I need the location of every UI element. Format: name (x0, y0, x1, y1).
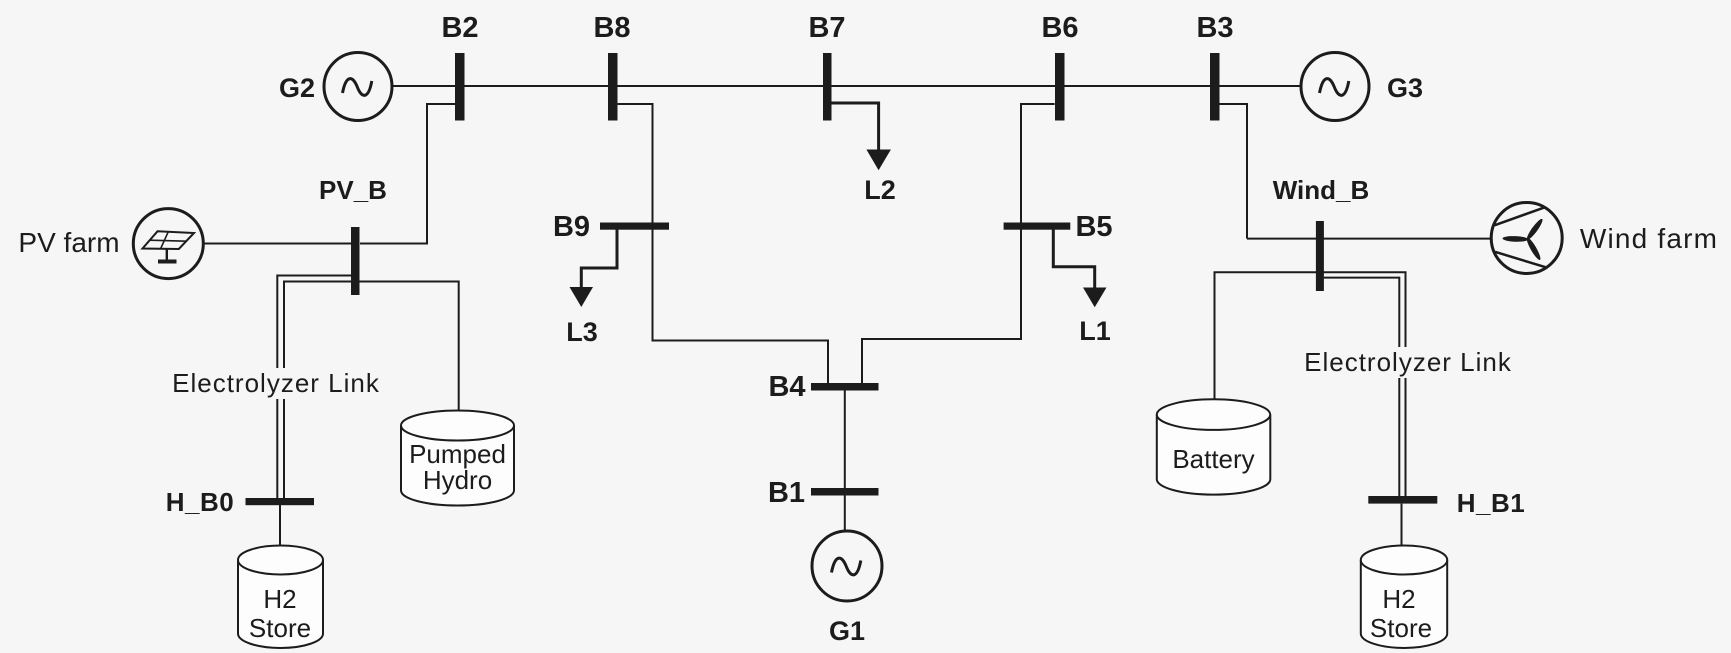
bus H_B0 (246, 498, 315, 505)
svg-text:B5: B5 (1075, 211, 1112, 243)
bus B1 (811, 488, 879, 496)
svg-text:L3: L3 (566, 317, 598, 347)
PV farm generator (133, 209, 203, 279)
wire: B3 to Wind_B (1219, 104, 1247, 239)
svg-text:H_B1: H_B1 (1457, 488, 1525, 518)
svg-text:B8: B8 (593, 12, 630, 44)
Electrolyzer Link label (left) (172, 368, 380, 399)
svg-text:B7: B7 (808, 12, 845, 44)
wire: H_B0 to H2 Store (279, 505, 281, 545)
wire: B8 down to B4 (618, 104, 828, 383)
svg-text:Electrolyzer Link: Electrolyzer Link (172, 368, 380, 398)
svg-text:H2: H2 (263, 584, 296, 614)
bus B2 (455, 53, 465, 121)
generator G1 (812, 531, 882, 601)
svg-text:B1: B1 (768, 477, 805, 509)
bus H_B1 (1368, 496, 1437, 504)
svg-text:L2: L2 (864, 175, 896, 205)
svg-text:PV farm: PV farm (18, 227, 119, 258)
wire: B4 to B1 (844, 390, 846, 488)
svg-text:Hydro: Hydro (423, 465, 492, 495)
load L2 arrow from B7 (831, 103, 879, 152)
H2 Store cylinder (right) (1361, 546, 1447, 648)
wire: main top bus line G2 to G3 (393, 85, 1301, 87)
svg-text:G3: G3 (1387, 73, 1423, 103)
svg-text:H2: H2 (1382, 584, 1415, 614)
bus B3 (1210, 53, 1220, 121)
wire: Wind_B to Wind farm (1247, 238, 1492, 240)
svg-text:Store: Store (1370, 613, 1432, 643)
Electrolyzer Link label (right) (1307, 347, 1513, 378)
wire: Wind_B to Battery and H_B1 (outer) (1215, 272, 1406, 496)
wire: PV farm to PV_B (204, 243, 352, 245)
svg-text:Wind_B: Wind_B (1273, 175, 1370, 205)
H2 Store cylinder (left) (238, 546, 323, 649)
svg-text:B4: B4 (768, 371, 805, 403)
wire: H_B1 to H2 Store (1401, 504, 1403, 546)
svg-text:PV_B: PV_B (319, 175, 387, 205)
bus Wind_B (1316, 221, 1324, 291)
wire: B1 to G1 (844, 496, 846, 532)
svg-text:B2: B2 (441, 12, 478, 44)
Pumped Hydro cylinder (401, 411, 514, 506)
load L1 arrow from B5 (1053, 230, 1094, 289)
svg-text:Store: Store (249, 613, 311, 643)
wire: B2 to PV_B (360, 104, 455, 244)
svg-text:H_B0: H_B0 (166, 487, 234, 517)
generator G3 (1301, 53, 1369, 121)
bus B7 (823, 53, 832, 121)
svg-text:L1: L1 (1079, 316, 1111, 346)
bus B4 (811, 383, 879, 391)
wire: Wind_B to H_B1 (inner electrolyzer link) (1324, 278, 1400, 496)
svg-text:B6: B6 (1041, 12, 1078, 44)
Wind farm generator (1491, 203, 1562, 274)
bus B5 (1004, 223, 1071, 230)
PV panel icon (143, 231, 195, 261)
load L3 arrow from B9 (581, 230, 617, 289)
wire: electrolyzer link PV_B to H_B0 (outer) (277, 276, 351, 499)
svg-text:G1: G1 (829, 616, 865, 646)
svg-text:B9: B9 (553, 211, 590, 243)
Battery cylinder (1157, 399, 1271, 494)
svg-text:Battery: Battery (1172, 444, 1254, 474)
svg-text:Wind farm: Wind farm (1580, 223, 1718, 254)
svg-text:Electrolyzer Link: Electrolyzer Link (1304, 347, 1512, 377)
bus B8 (608, 53, 618, 121)
generator G2 (324, 53, 392, 121)
svg-text:G2: G2 (279, 73, 315, 103)
wire: B6 down to B4 (862, 104, 1055, 383)
bus B9 (600, 223, 669, 230)
bus PV_B (351, 227, 360, 295)
wind turbine icon (1495, 207, 1547, 267)
wire: PV_B to Pumped Hydro and H_B0 (inner) (284, 282, 459, 499)
bus B6 (1055, 53, 1065, 121)
svg-text:B3: B3 (1196, 12, 1233, 44)
